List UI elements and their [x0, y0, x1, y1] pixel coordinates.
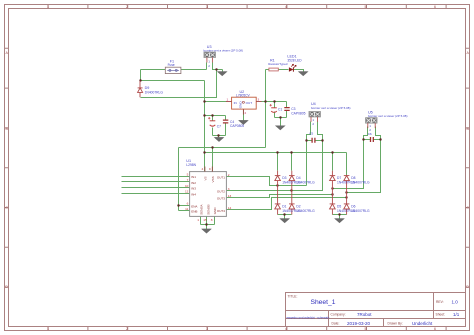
svg-text:1: 1 — [47, 5, 49, 9]
svg-text:3: 3 — [258, 98, 260, 102]
terminal U5 bornier body — [366, 118, 377, 128]
diode D6 — [344, 204, 350, 209]
node U1 gnd — [205, 223, 207, 225]
svg-text:D9: D9 — [145, 86, 150, 90]
wire U4 cap rail — [307, 140, 323, 142]
diode D9 — [138, 81, 143, 97]
svg-text:easyeda.com/underlicht - schem: easyeda.com/underlicht - schematic — [287, 316, 331, 320]
capacitor C1 electrolytic — [270, 104, 277, 112]
svg-text:1/1: 1/1 — [453, 312, 460, 317]
node OUT4/D8 — [345, 196, 347, 198]
svg-text:5: 5 — [365, 327, 367, 331]
svg-text:2: 2 — [228, 173, 230, 177]
svg-text:IN3: IN3 — [191, 187, 196, 191]
svg-text:12: 12 — [185, 190, 189, 194]
resistor R1 — [269, 68, 278, 71]
wire U5 link B — [347, 140, 381, 193]
terminal U4 bornier body — [309, 112, 320, 122]
ground C7C4 — [215, 138, 224, 142]
svg-text:D7: D7 — [337, 176, 341, 180]
node C1C3 gnd — [279, 116, 281, 118]
BLUE LABELS — [145, 45, 408, 213]
svg-text:ResistorTyped: ResistorTyped — [268, 62, 288, 66]
capacitor C3 ceramic — [284, 108, 289, 111]
svg-text:1N4007RLG: 1N4007RLG — [145, 90, 164, 94]
wire U2 IN — [205, 101, 227, 103]
svg-text:4: 4 — [285, 5, 287, 9]
U4 pin numbers — [312, 118, 314, 126]
svg-text:D5: D5 — [337, 204, 341, 208]
svg-text:2: 2 — [208, 64, 210, 68]
wire fuse input top — [141, 63, 207, 70]
svg-text:7Robot: 7Robot — [357, 312, 372, 317]
svg-text:9: 9 — [209, 167, 211, 171]
node U2 OUT — [264, 100, 266, 102]
node ENA tap — [177, 204, 179, 206]
svg-text:VS: VS — [204, 176, 208, 180]
svg-text:GND: GND — [239, 101, 243, 109]
wire main 12V vertical — [204, 81, 206, 172]
svg-text:Sheet:: Sheet: — [436, 312, 446, 316]
svg-text:OUT: OUT — [246, 101, 253, 105]
capacitor C7 electrolytic — [208, 117, 215, 126]
GROUND SYMBOLS — [202, 72, 344, 233]
U2 pin numbers — [227, 98, 260, 115]
svg-text:REV:: REV: — [436, 300, 444, 304]
svg-text:ENB: ENB — [191, 210, 197, 214]
svg-text:1N4007RLG: 1N4007RLG — [351, 209, 370, 213]
svg-text:1N4007RLG: 1N4007RLG — [296, 209, 315, 213]
svg-text:C1: C1 — [278, 107, 282, 111]
node linkB/D8 — [345, 191, 347, 193]
IC U1 L298N body — [190, 167, 227, 217]
frame zone numbers bottom — [47, 327, 436, 331]
diode D8 — [344, 175, 350, 214]
ground U2 — [239, 121, 248, 125]
svg-text:bornier vert a visser (2P 5.08: bornier vert a visser (2P 5.08) — [368, 114, 407, 118]
wire U2 OUT node — [262, 70, 304, 102]
node U5 capA — [362, 138, 364, 140]
wire 12V motor rail — [205, 153, 347, 176]
wire U4 pins down — [307, 122, 323, 141]
node OUT2/D4 — [290, 189, 292, 191]
svg-text:D8: D8 — [351, 176, 355, 180]
diode D3 — [275, 171, 281, 215]
svg-text:D1: D1 — [282, 204, 286, 208]
right ticks — [466, 48, 470, 287]
U1 pin names — [191, 175, 225, 215]
svg-text:OUT1: OUT1 — [217, 176, 225, 180]
wire 5V rail — [179, 102, 266, 211]
svg-text:C5: C5 — [309, 132, 313, 136]
svg-text:1: 1 — [47, 327, 49, 331]
svg-text:10: 10 — [185, 184, 189, 188]
svg-text:C3: C3 — [291, 107, 295, 111]
node C1 tap — [273, 100, 275, 102]
node bridge R gnd — [338, 213, 340, 215]
top ticks — [48, 5, 446, 9]
wire bridge left ground rail — [278, 215, 292, 219]
svg-text:SENSA: SENSA — [200, 204, 204, 215]
wire VSS drop — [212, 148, 214, 172]
fuse F1 — [165, 67, 181, 73]
svg-text:Sheet_1: Sheet_1 — [311, 299, 336, 306]
wire U2 gnd pin — [243, 110, 245, 121]
capacitor C6 ceramic — [371, 137, 374, 142]
ground C1C3 — [276, 126, 285, 130]
LED LED1 — [289, 64, 296, 72]
node C7C4 tap — [203, 114, 205, 116]
svg-text:bornier vert a visser (2P 5.08: bornier vert a visser (2P 5.08) — [204, 49, 243, 53]
svg-text:6: 6 — [434, 5, 436, 9]
wire C7 C4 branch — [205, 116, 226, 138]
svg-text:14: 14 — [228, 206, 232, 210]
svg-text:1: 1 — [312, 118, 314, 122]
ground LED — [299, 72, 308, 76]
svg-text:11: 11 — [185, 207, 188, 211]
svg-text:GND: GND — [213, 207, 217, 215]
svg-text:D4: D4 — [296, 176, 300, 180]
svg-text:2: 2 — [245, 111, 247, 115]
wire 12V horizontal to main column — [141, 80, 205, 82]
wire U3 pin2 to ground — [213, 63, 223, 72]
wire bridge right ground rail — [333, 215, 347, 219]
svg-text:ENA: ENA — [191, 204, 198, 208]
svg-text:IN4: IN4 — [191, 192, 196, 196]
node U2 IN tap — [203, 100, 205, 102]
node C7C4 gnd — [217, 134, 219, 136]
svg-text:2: 2 — [126, 327, 128, 331]
svg-text:1: 1 — [208, 60, 210, 64]
wire U1 bottom pins — [201, 217, 215, 230]
U5 pin numbers — [369, 124, 371, 132]
node VSS tap — [211, 146, 213, 148]
svg-text:3528 LED: 3528 LED — [287, 59, 302, 63]
svg-text:13: 13 — [228, 194, 232, 198]
svg-text:OUT2: OUT2 — [217, 190, 225, 194]
svg-text:IN1: IN1 — [191, 175, 196, 179]
svg-text:Date:: Date: — [332, 321, 340, 325]
svg-text:Drawn By:: Drawn By: — [388, 321, 403, 325]
node fuse/D9 — [139, 79, 141, 81]
left ticks — [5, 48, 9, 287]
svg-text:1.0: 1.0 — [452, 299, 459, 304]
U1 pin numbers — [185, 173, 189, 211]
svg-text:CAP0805: CAP0805 — [230, 124, 244, 128]
wire U5 cap rail — [364, 139, 381, 141]
svg-text:6: 6 — [434, 327, 436, 331]
node VS rail tap — [203, 151, 205, 153]
svg-text:VSS: VSS — [211, 176, 215, 182]
svg-text:Underlicht: Underlicht — [412, 321, 433, 326]
node OUT1/D3 — [276, 184, 278, 186]
svg-text:C6: C6 — [368, 132, 372, 136]
wire U5 pins down — [364, 127, 381, 140]
diode D4 — [289, 171, 295, 215]
frame zone numbers top — [47, 5, 436, 9]
svg-text:4: 4 — [285, 327, 287, 331]
diode D2 — [289, 204, 295, 209]
wire input left drop — [140, 70, 142, 81]
svg-text:3: 3 — [228, 187, 230, 191]
wire U1 inputs — [122, 177, 190, 194]
node rail D7 — [331, 151, 333, 153]
svg-text:7: 7 — [187, 178, 189, 182]
svg-text:D2: D2 — [296, 204, 300, 208]
svg-text:U1: U1 — [186, 159, 191, 163]
wire U5 link A — [333, 140, 364, 189]
diode D7 — [330, 171, 336, 215]
svg-text:2: 2 — [126, 5, 128, 9]
wire C1 C3 branch — [275, 102, 287, 126]
svg-text:OUT4: OUT4 — [217, 209, 225, 213]
svg-text:C4: C4 — [230, 120, 234, 124]
svg-text:D6: D6 — [351, 204, 355, 208]
wire OUT3 — [227, 195, 333, 198]
TITLE BLOCK — [286, 293, 466, 327]
JUNCTION DOTS — [139, 68, 381, 225]
svg-text:15: 15 — [203, 218, 207, 222]
svg-text:6: 6 — [187, 202, 189, 206]
U3 pin numbers — [208, 60, 210, 68]
node U5 capB — [379, 138, 381, 140]
svg-text:L298N: L298N — [186, 163, 196, 167]
svg-text:1N4007RLG: 1N4007RLG — [296, 181, 315, 185]
svg-text:IN2: IN2 — [191, 181, 196, 185]
node OUT3/D7 — [331, 193, 333, 195]
svg-text:Fuse: Fuse — [168, 63, 175, 67]
svg-text:2: 2 — [369, 128, 371, 132]
svg-text:1: 1 — [369, 124, 371, 128]
svg-text:3: 3 — [206, 5, 208, 9]
svg-text:1: 1 — [227, 98, 229, 102]
frame zone letters left — [5, 51, 8, 289]
ground U3 input — [218, 72, 227, 76]
ground bridge right — [335, 219, 344, 223]
capacitor C5 ceramic — [312, 138, 315, 143]
svg-text:SENSB: SENSB — [207, 204, 211, 214]
node bridge L gnd — [283, 213, 285, 215]
svg-text:8: 8 — [211, 218, 213, 222]
wire OUT2 — [227, 141, 323, 191]
diode D5 — [330, 204, 336, 209]
U2 pin names — [234, 101, 253, 109]
svg-text:5: 5 — [365, 5, 367, 9]
wire OUT4 — [227, 198, 347, 210]
svg-text:LED1: LED1 — [287, 55, 296, 59]
bottom ticks — [48, 327, 446, 331]
ground U1 — [202, 229, 211, 233]
svg-text:Company:: Company: — [331, 313, 346, 317]
svg-text:2019-03-20: 2019-03-20 — [347, 321, 371, 326]
svg-text:1: 1 — [197, 218, 199, 222]
wire U1 outputs OUT1 — [227, 141, 307, 186]
capacitor C4 ceramic — [223, 120, 228, 123]
svg-text:OUT3: OUT3 — [217, 197, 225, 201]
node U4 capA — [305, 139, 307, 141]
terminal U3 bornier body — [204, 52, 215, 62]
node rail D4 — [290, 151, 292, 153]
node rail D3 — [276, 151, 278, 153]
svg-text:C7: C7 — [217, 124, 221, 128]
svg-text:IN: IN — [234, 101, 237, 105]
svg-text:L7805CV: L7805CV — [236, 93, 251, 97]
svg-text:3: 3 — [206, 327, 208, 331]
svg-text:bornier vert a visser (2P 5.08: bornier vert a visser (2P 5.08) — [311, 106, 350, 110]
op U2 regulator L7805CV body — [226, 97, 262, 114]
svg-text:5: 5 — [187, 173, 189, 177]
svg-text:2: 2 — [312, 122, 314, 126]
svg-text:D3: D3 — [282, 176, 286, 180]
node gnd/D9 return — [215, 68, 217, 70]
svg-text:1N4007RLG: 1N4007RLG — [351, 181, 370, 185]
svg-text:4: 4 — [202, 167, 204, 171]
svg-text:CAP0805: CAP0805 — [291, 111, 305, 115]
frame zone letters right — [466, 51, 469, 289]
ground bridge left — [280, 219, 289, 223]
wire D9 return — [141, 70, 217, 98]
node U4 capB — [321, 139, 323, 141]
node linkA/D7 — [331, 187, 333, 189]
diode D1 — [275, 204, 281, 209]
svg-text:TITLE:: TITLE: — [288, 294, 298, 298]
